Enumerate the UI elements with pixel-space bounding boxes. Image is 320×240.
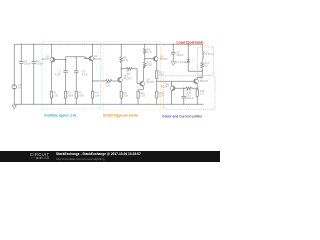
svg-text:Schmitt Trigger and Inverter: Schmitt Trigger and Inverter (103, 113, 139, 117)
svg-text:BD139: BD139 (200, 79, 208, 83)
svg-text:Oscillator, approx. 1 Hz: Oscillator, approx. 1 Hz (44, 113, 77, 117)
svg-text:BC547: BC547 (42, 57, 50, 61)
svg-text:100k: 100k (68, 93, 74, 97)
svg-text:1.0k: 1.0k (94, 93, 100, 97)
svg-text:10k: 10k (106, 84, 111, 88)
svg-text:47nF: 47nF (55, 72, 61, 76)
svg-text:2.2k: 2.2k (147, 63, 153, 67)
svg-text:BC547: BC547 (94, 57, 102, 61)
svg-text:61.6mH: 61.6mH (204, 52, 213, 56)
svg-text:Load (Solenoid): Load (Solenoid) (177, 40, 204, 44)
svg-text:470: 470 (159, 73, 164, 77)
svg-text:47nF: 47nF (82, 72, 88, 76)
svg-text:BC547: BC547 (124, 76, 132, 80)
svg-text:2.2k: 2.2k (123, 58, 129, 62)
svg-text:1N4007: 1N4007 (180, 60, 190, 64)
svg-text:D1: D1 (176, 60, 180, 64)
svg-text:1.0k: 1.0k (53, 93, 59, 97)
svg-text:1.0k: 1.0k (123, 93, 129, 97)
svg-text:1.0k: 1.0k (140, 93, 146, 97)
svg-text:BC557: BC557 (160, 57, 168, 61)
svg-text:100nF: 100nF (176, 53, 184, 57)
svg-text:1.0k: 1.0k (159, 93, 165, 97)
svg-text:100nF: 100nF (186, 96, 194, 100)
svg-text:100µF: 100µF (24, 62, 32, 66)
svg-text:5V: 5V (18, 86, 21, 90)
svg-text:100µF: 100µF (36, 62, 44, 66)
svg-text:4Ω: 4Ω (204, 64, 207, 68)
svg-text:4.7k: 4.7k (147, 50, 153, 54)
svg-text:1.0: 1.0 (200, 92, 204, 96)
svg-text:BC547: BC547 (146, 80, 154, 84)
svg-text:BC547: BC547 (161, 84, 169, 88)
svg-text:100k: 100k (78, 93, 84, 97)
svg-text:Driver and Current Limiter: Driver and Current Limiter (162, 114, 203, 118)
